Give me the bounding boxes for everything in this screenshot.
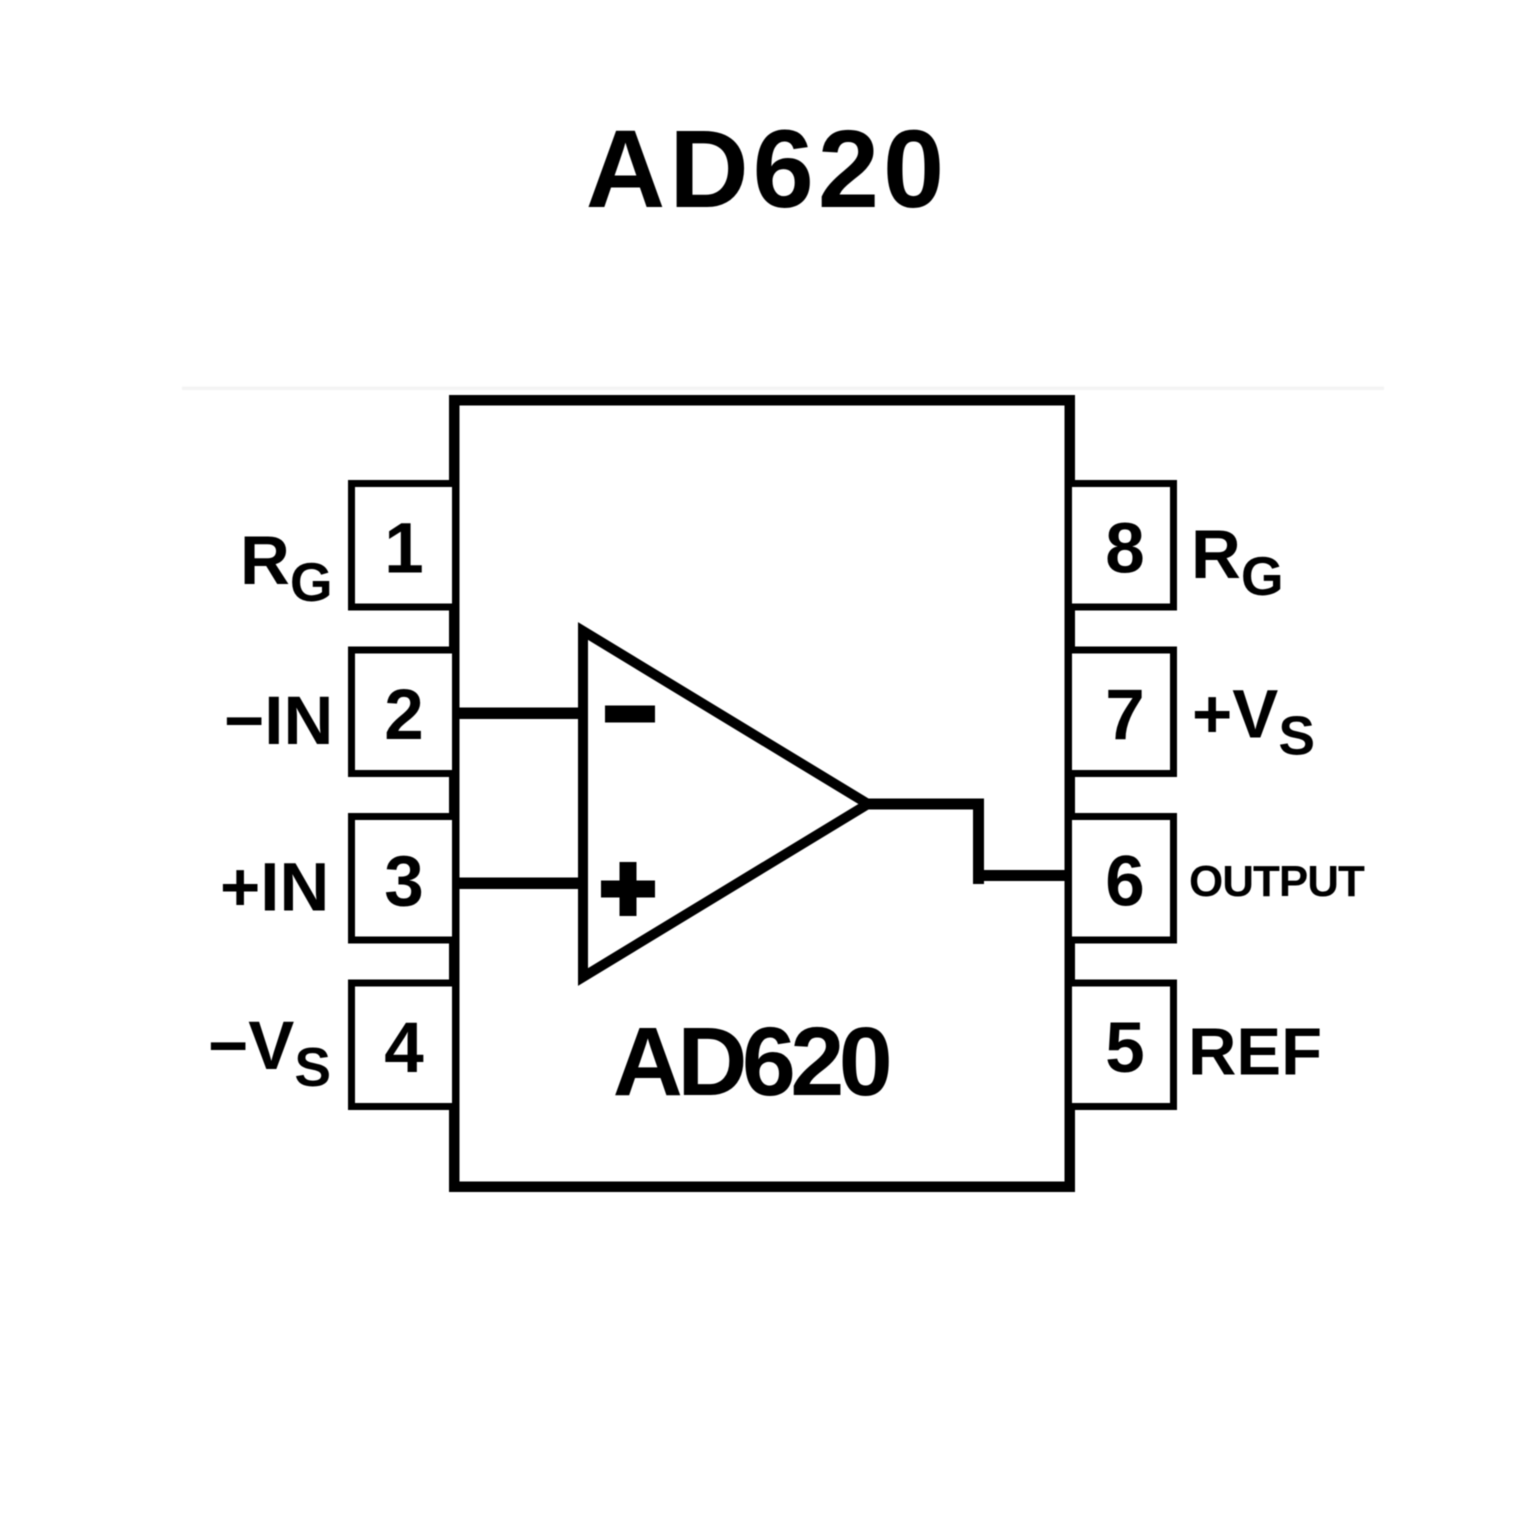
op-amp A1 xyxy=(583,631,868,977)
pin 6 box xyxy=(1069,817,1174,941)
svg-text:6: 6 xyxy=(1105,843,1145,922)
svg-text:AD620: AD620 xyxy=(586,108,948,231)
svg-text:2: 2 xyxy=(384,676,424,755)
svg-text:5: 5 xyxy=(1105,1009,1145,1088)
pin 5 box xyxy=(1069,983,1174,1107)
pin 3 box xyxy=(352,817,456,941)
svg-text:4: 4 xyxy=(384,1009,424,1088)
op-amp non-inverting input symbol xyxy=(601,862,655,916)
wire pin3 to op-amp non-inverting input xyxy=(455,878,588,890)
svg-text:OUTPUT: OUTPUT xyxy=(1189,857,1365,906)
pin 4 box xyxy=(352,983,456,1107)
svg-text:3: 3 xyxy=(384,843,424,922)
svg-text:7: 7 xyxy=(1105,676,1145,755)
svg-text:REF: REF xyxy=(1188,1015,1322,1090)
svg-text:AD620: AD620 xyxy=(613,1007,889,1116)
wire pin2 to op-amp inverting input xyxy=(455,708,588,720)
pin 2 box xyxy=(352,650,456,774)
wire op-amp output to pin 6 xyxy=(862,799,1070,885)
svg-text:+IN: +IN xyxy=(220,849,329,926)
pin 7 box xyxy=(1069,650,1174,774)
svg-text:−IN: −IN xyxy=(224,682,333,759)
IC body U1 xyxy=(454,400,1070,1187)
op-amp inverting input symbol xyxy=(605,706,655,723)
pin 8 box xyxy=(1069,484,1174,608)
svg-text:8: 8 xyxy=(1105,510,1145,589)
svg-text:1: 1 xyxy=(384,510,424,589)
pin 1 box xyxy=(352,484,456,608)
